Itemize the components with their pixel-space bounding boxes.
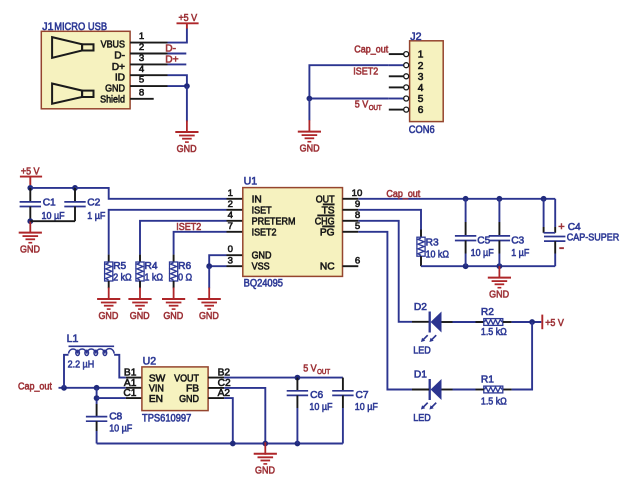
junction rail at FB/GND [262,441,268,447]
U1 pin name NC [320,262,335,273]
svg-text:9: 9 [355,199,360,210]
junction bottom rail at C5 [463,263,469,269]
svg-text:J2: J2 [410,31,421,43]
svg-text:10: 10 [352,188,363,199]
capacitor C3 bottom lead [498,241,500,267]
R1 left stub [476,389,484,391]
svg-text:NC: NC [320,262,335,273]
junction Cap_out at C5 [463,196,469,202]
L1 right lead [114,355,126,378]
svg-text:C1: C1 [123,388,136,399]
svg-text:5 V: 5 V [355,100,369,111]
R2 reference label [481,307,494,318]
L1 left lead [64,355,69,388]
U1 pin 9 stub [343,209,359,211]
R6 reference label [178,261,191,272]
capacitor C6 top lead [296,378,298,391]
svg-text:C8: C8 [109,412,122,423]
svg-text:10 µF: 10 µF [109,423,132,434]
J1 pin number 1 [139,31,144,42]
wire R2 to +5V [512,321,542,323]
svg-text:GND: GND [300,144,320,155]
R1 reference label [481,375,494,386]
svg-text:2: 2 [228,199,233,210]
C8 value label 10 uF [109,423,132,434]
junction rail at C6 [295,441,301,447]
U2 value label TPS610997 [142,412,191,424]
GND label (U1) [199,311,219,322]
J2 pin number 4 [418,83,424,94]
wire U2 GND down [224,398,233,443]
U1 value label BQ24095 [244,278,283,290]
J1 pin 5 stub [130,85,167,87]
svg-text:C1: C1 [43,198,56,209]
U2 pin B2 stub [208,377,224,379]
wire capacitor bank bottom rail [421,265,555,267]
svg-text:R1: R1 [481,375,494,386]
capacitor C2 [64,202,85,207]
svg-text:1: 1 [228,188,233,199]
wire J2 GND down [308,99,310,121]
ground (U1) [198,288,221,310]
U1 pin name OUT [316,194,335,205]
capacitor C2 bottom lead [74,207,76,222]
svg-text:1 µF: 1 µF [511,248,529,259]
D2 value label LED [413,345,431,356]
capacitor C4 bottom lead [554,241,556,266]
J2 pin 2 stub [389,64,404,66]
power +5V (J1) [177,13,199,29]
node D+ label [165,55,178,66]
U1 pin 6 stub [343,265,359,267]
U1 pin name PRETERM [252,216,296,227]
R2 value label 1.5 kOhm [481,327,507,338]
svg-text:GND: GND [255,466,275,477]
ground (U2 rail) [254,442,277,464]
wire U1 GND down [208,266,210,288]
IC U1 body [243,188,343,277]
U2 pin label C1 [123,388,136,399]
J1 pin name D+ [112,62,125,73]
junction EN branch [94,395,100,401]
svg-text:4: 4 [139,64,145,75]
svg-text:2: 2 [418,61,424,72]
J2 value label CON6 [409,124,435,136]
wire U1 ISET to R5 [109,210,227,255]
svg-text:LED: LED [413,413,431,424]
svg-text:C7: C7 [356,390,369,401]
U1 pin number 10 [352,188,363,199]
J2 pin 4 circle [404,85,409,90]
J1 pin number 8 [139,87,144,98]
U1 TS overline [323,203,335,205]
junction +5V at C2 [72,185,78,191]
wire +5V rail to C2 [30,187,75,189]
D2 anode stub [412,321,429,323]
svg-text:D+: D+ [112,62,125,73]
wire +5V rail to U1 IN [75,188,227,199]
junction Cap_out at C4 [541,196,547,202]
capacitor C5 [455,236,476,241]
J2 pin 5 circle [404,96,409,101]
svg-text:ISET2: ISET2 [353,67,378,78]
J1 USB horn symbol lower [52,84,93,104]
U1 pin number 3 [228,255,233,266]
svg-text:Cap_out: Cap_out [18,381,52,392]
C6 value label 10 uF [309,402,332,413]
svg-text:1 µF: 1 µF [87,211,105,222]
resistor R2 [484,319,503,326]
C3 reference label [511,236,524,247]
resistor R3 [417,237,425,256]
junction C1 GND [27,218,33,224]
svg-text:GND: GND [489,290,509,301]
J1 pin number 2 [139,42,144,53]
resistor R4 [136,262,144,281]
GND label (R6) [163,311,183,322]
svg-text:+: + [558,221,564,233]
svg-text:0: 0 [228,244,233,255]
svg-text:6: 6 [355,255,360,266]
C7 reference label [356,390,369,401]
L1 value label 2.2 uH [68,360,95,371]
C6 reference label [310,390,323,401]
junction J1 GND net [184,83,190,89]
junction Cap_out at L1 [61,385,67,391]
U2 pin label A1 [124,378,137,389]
svg-text:8: 8 [355,210,360,221]
wire U2 ground rail [97,443,343,445]
wire D2 to R2 [453,321,484,323]
svg-text:GND: GND [177,144,197,155]
svg-text:6: 6 [418,105,424,116]
U1 pin number 2 [228,199,233,210]
svg-text:3: 3 [228,255,233,266]
junction J2 GND net [307,96,313,102]
R5 bottom stub [108,281,110,288]
svg-text:Cap_out: Cap_out [386,189,420,200]
J2 pin 4 stub [389,86,404,88]
J2 pin 6 stub [389,109,404,111]
U2 pin name VIN [149,384,164,395]
svg-text:5 V: 5 V [303,364,317,375]
svg-text:Cap_out: Cap_out [354,44,388,55]
svg-text:10 µF: 10 µF [309,402,332,413]
U1 pin 1 stub [227,198,243,200]
net label Cap_out (U2) [18,381,52,392]
R1 value label 1.5 kOhm [481,397,507,408]
svg-text:GND: GND [163,311,183,322]
J1 pin 1 stub [130,42,167,44]
inductor L1 [69,346,115,355]
R5 value label 2 kOhm [113,272,132,283]
D1 anode stub [412,389,429,391]
svg-text:ISET2: ISET2 [252,227,277,238]
junction 5V_OUT at C6 [295,375,301,381]
wire U1 VSS pin [209,265,226,267]
C7 value label 10 uF [355,402,378,413]
ground (J1) [175,121,198,143]
R6 value label 0 Ohm [178,272,192,283]
svg-text:U1: U1 [244,176,258,188]
J1 pin 2 stub [130,53,167,55]
net label Cap_out (J2 pin1) [354,44,388,55]
LED D1 [430,379,442,400]
junction Cap_out at C3 [497,196,503,202]
J1 pin name Shield [100,95,125,106]
J2 pin number 2 [418,61,424,72]
J1 pin name D- [114,51,125,62]
D1 value label LED [413,413,431,424]
capacitor C2 top lead [74,188,76,202]
J1 pin name GND [105,84,125,95]
svg-text:1.5 kΩ: 1.5 kΩ [481,397,507,408]
svg-text:7: 7 [228,221,233,232]
capacitor C3 [489,236,510,241]
U2 pin C2 stub [208,387,224,389]
svg-text:C4: C4 [568,222,581,233]
J1 pin number 5 [139,75,144,86]
wire J2 pin5 to GND [309,98,388,100]
wire J2 pin2 to GND [309,65,388,98]
wire R1 to D1 [453,389,476,391]
svg-text:R4: R4 [145,261,158,272]
J1 pin name VBUS [101,40,126,51]
capacitor C1 [20,202,41,207]
svg-text:5: 5 [355,221,360,232]
wire U1 GND pin to VSS junction [209,255,226,266]
wire J1 pin1 to +5V [168,28,187,42]
svg-text:3: 3 [418,72,424,83]
C5 value label 10 uF [471,248,494,259]
IC U2 body [142,367,208,411]
U1 pin name ISET2 [252,227,277,238]
U1 PG overline [322,225,334,227]
J1 USB horn symbol upper [52,37,93,58]
svg-text:+5 V: +5 V [545,318,564,329]
svg-text:D-: D- [165,44,176,55]
ground (C3 rail) [488,266,511,288]
U2 pin A2 stub [208,397,224,399]
GND label (J2) [300,144,320,155]
wire D- (J1 pin2) [168,53,187,55]
J2 pin number 1 [418,50,424,61]
power +5V (U1 input rail) [20,166,42,185]
wire +5V to R1 [512,322,532,390]
wire C8 branch [96,388,98,404]
U1 pin name PG [320,227,335,238]
U1 pin name VSS [252,262,270,273]
U1 pin 5 stub [343,231,359,233]
svg-text:D2: D2 [414,302,427,313]
capacitor C7 [332,391,353,396]
wire D+ (J1 pin3) [168,63,187,65]
svg-text:5: 5 [418,94,424,105]
U1 pin number 0 [228,244,233,255]
D1 arrows [421,403,436,410]
C4 polarity plus [558,221,564,233]
R5 top stub [108,255,110,262]
U2 pin name EN [149,394,163,405]
wire U2 FB down [224,388,265,444]
R3 top stub [420,230,422,238]
svg-text:D-: D- [114,51,125,62]
capacitor C1 bottom lead [29,207,31,222]
U2 pin name GND [179,394,199,405]
svg-text:GND: GND [98,311,118,322]
junction rail at A2 [230,441,236,447]
svg-text:1: 1 [418,50,424,61]
U1 pin 8 stub [343,220,359,222]
wire C2 bottom to C1 GND [30,220,75,222]
svg-text:10 µF: 10 µF [471,248,494,259]
svg-text:IN: IN [252,194,262,205]
capacitor C6 [287,391,308,396]
svg-text:TPS610997: TPS610997 [142,412,191,424]
junction U1 VSS/GND [206,263,212,269]
svg-text:C6: C6 [310,390,323,401]
svg-text:0 Ω: 0 Ω [178,272,192,283]
svg-text:Shield: Shield [100,95,125,106]
resistor R5 [105,262,113,281]
J2 pin number 6 [418,105,424,116]
U1 reference designator label [244,176,258,188]
capacitor C6 bottom lead [296,395,298,443]
J2 pin 5 stub [389,98,404,100]
J2 pin 3 circle [404,74,409,79]
capacitor C8 top lead [96,404,98,417]
svg-text:ISET: ISET [252,205,272,216]
svg-text:+5 V: +5 V [178,13,197,24]
GND label (C1) [20,244,40,255]
ground (J2) [298,120,321,142]
R5 reference label [113,261,126,272]
U1 pin number 8 [355,210,360,221]
C2 value label 1 uF [87,211,105,222]
R3 value label 10 kOhm [426,250,450,261]
svg-text:VSS: VSS [252,262,270,273]
svg-text:2 kΩ: 2 kΩ [113,272,132,283]
U1 pin number 1 [228,188,233,199]
wire EN to U2 [97,397,126,399]
svg-text:VBUS: VBUS [101,40,126,51]
capacitor C3 top lead [498,199,500,236]
J2 pin 2 circle [404,63,409,68]
U2 reference designator label [143,356,157,368]
capacitor C8 [86,417,107,422]
capacitor C8 bottom lead [96,421,98,443]
J1 pin number 3 [139,53,144,64]
L1 reference label [67,333,79,345]
J1 pin 3 stub [130,63,167,65]
connector J2 body [410,41,444,122]
net label ISET2 (U1) [176,222,201,233]
C3 value label 1 uF [511,248,529,259]
capacitor C7 bottom lead [342,395,344,443]
GND label (J1) [177,144,197,155]
svg-text:10 µF: 10 µF [355,402,378,413]
R2 left stub [476,321,484,323]
R3 bottom stub [420,256,422,266]
net label ISET2 (J2 pin3) [353,67,378,78]
svg-text:10 µF: 10 µF [42,211,65,222]
D1 cathode stub [442,389,453,391]
U1 pin number 5 [355,221,360,232]
net label 5 V OUT (J2 pin6) [355,100,383,112]
svg-text:R3: R3 [426,238,439,249]
svg-text:LED: LED [413,345,431,356]
J2 pin number 3 [418,72,424,83]
C8 reference label [109,412,122,423]
wire U1 PG to D1 [358,232,412,390]
junction bottom rail at C3 [497,263,503,269]
svg-text:ISET2: ISET2 [176,222,201,233]
GND label (C3 rail) [489,290,509,301]
U2 pin label C2 [218,378,231,389]
capacitor C4 plates [544,237,565,242]
svg-text:GND: GND [252,251,272,262]
U1 pin 7 stub [227,231,243,233]
J2 pin 1 stub [389,53,404,55]
svg-text:4: 4 [418,83,424,94]
J2 pin 3 stub [389,75,404,77]
power +5V (LED) [542,315,564,330]
wire U1 PRETERM to R4 [140,221,227,255]
svg-text:D+: D+ [165,55,178,66]
C4 reference label [568,222,581,233]
wire J1 pin5 net [168,85,187,87]
svg-text:CON6: CON6 [409,124,435,136]
svg-text:GND: GND [130,311,150,322]
U1 pin name GND [252,251,272,262]
capacitor C4 top bracket [544,199,556,233]
svg-text:GND: GND [105,84,125,95]
J2 pin 6 circle [404,107,409,112]
wire Cap_out to U2 VIN [59,387,126,389]
wire J1 pin4 to pin5 junction [168,75,187,86]
svg-text:10 kΩ: 10 kΩ [426,250,450,261]
wire U1 ISET2 to R6 [174,232,227,255]
R4 value label 1 kOhm [145,272,164,283]
C5 reference label [477,236,490,247]
svg-text:EN: EN [149,394,163,405]
net label Cap_out (U1 OUT) [386,189,420,200]
C2 reference label [87,198,100,209]
svg-text:C2: C2 [87,198,100,209]
U1 pin number 7 [228,221,233,232]
U1 pin 3 stub [227,265,243,267]
R3 reference label [426,238,439,249]
U1 pin name ISET [252,205,272,216]
D2 cathode stub [442,321,453,323]
C1 value label 10 uF [42,211,65,222]
J2 reference designator label [410,31,421,43]
capacitor C5 top lead [465,199,467,236]
svg-text:R2: R2 [481,307,494,318]
R6 top stub [173,255,175,262]
U1 pin 4 stub [227,220,243,222]
svg-text:MICRO USB: MICRO USB [54,21,107,33]
resistor R6 [170,262,178,281]
LED D2 [430,312,442,333]
R4 top stub [139,255,141,262]
U1 pin name CHG [315,216,335,227]
svg-text:4: 4 [228,210,234,221]
svg-text:GND: GND [179,394,199,405]
junction +5V LED net [529,319,535,325]
capacitor C5 bottom lead [465,241,467,267]
J1 pin 8 stub [130,98,154,100]
